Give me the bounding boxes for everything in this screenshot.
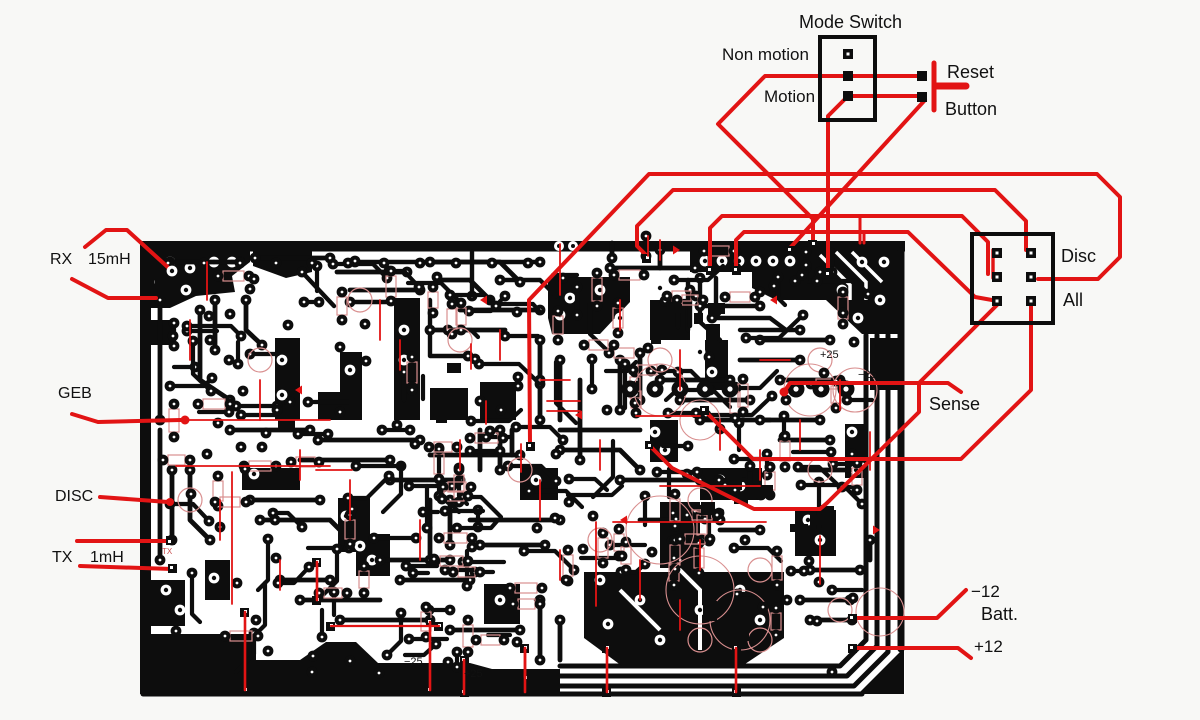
wire (409, 637, 447, 641)
wire (498, 304, 541, 313)
connector pin (1026, 296, 1036, 306)
wire (450, 295, 496, 306)
reset button pins (917, 71, 927, 81)
wire (737, 423, 741, 450)
wire (236, 404, 277, 408)
wire (651, 371, 710, 390)
TX wire upper (77, 539, 169, 543)
wire (793, 450, 831, 454)
resistor (598, 538, 608, 558)
transistor outline (688, 488, 712, 512)
wire (707, 515, 711, 541)
resistor (421, 612, 431, 631)
svg-text:GEB: GEB (58, 385, 92, 402)
wire (465, 551, 469, 586)
resistor (638, 365, 657, 375)
wire (486, 435, 512, 439)
pour 17 (845, 424, 868, 478)
wire (734, 457, 767, 461)
wire (423, 510, 438, 514)
wire (760, 418, 820, 423)
wire (170, 378, 212, 386)
GEB wire (72, 414, 181, 422)
pour 20 (140, 634, 560, 694)
wire (337, 270, 407, 275)
wire (657, 470, 697, 474)
wire (524, 551, 574, 570)
wire (260, 520, 350, 540)
wire (736, 371, 777, 388)
capacitor outline (784, 364, 836, 416)
wire (315, 266, 319, 291)
wire (610, 243, 615, 258)
wire (356, 464, 401, 468)
wire (187, 326, 241, 336)
wire (450, 628, 520, 633)
bottom edge pads (240, 558, 741, 697)
board base (140, 241, 905, 694)
wire (463, 560, 504, 564)
wire (782, 416, 786, 437)
connector pin (992, 248, 1002, 258)
svg-text:Motion: Motion (764, 87, 815, 106)
svg-text:−25: −25 (404, 656, 423, 668)
wire (665, 299, 689, 303)
wire (750, 466, 761, 495)
border trace 2 (560, 335, 877, 676)
wire (819, 482, 833, 543)
wire (760, 338, 830, 343)
resistor (456, 308, 466, 325)
wire (406, 564, 437, 568)
wire (213, 300, 218, 350)
wire (800, 468, 850, 473)
route R3 (710, 216, 988, 274)
transistor outline (588, 528, 612, 552)
pour 1 (151, 251, 250, 308)
route R2 (637, 190, 1026, 256)
wire (676, 517, 705, 521)
wire (304, 300, 319, 304)
resistor (772, 556, 782, 580)
transistor outline (828, 598, 852, 622)
wire (480, 543, 545, 548)
resistor (838, 297, 848, 319)
svg-text:TX: TX (162, 547, 173, 556)
switch pin 2 (843, 71, 853, 81)
wire (663, 444, 688, 448)
large pads row (622, 381, 855, 398)
svg-text:TX: TX (52, 549, 73, 566)
wire (409, 484, 452, 488)
resistor (738, 384, 748, 407)
wire (590, 359, 594, 389)
resistor (563, 555, 573, 576)
resistor (386, 276, 396, 297)
transistor outline (688, 628, 712, 652)
wire (556, 362, 576, 423)
transistor outline (448, 328, 472, 352)
pour 21 (242, 468, 300, 490)
wire (457, 520, 498, 528)
wire (389, 271, 419, 287)
wire (488, 633, 510, 637)
wire (463, 497, 501, 517)
resistor (324, 588, 342, 598)
resistor (780, 441, 790, 461)
resistor (709, 246, 729, 256)
pour 8 (548, 277, 630, 334)
wire (280, 578, 330, 583)
wire (190, 470, 210, 540)
non motion wire (718, 76, 922, 242)
inner red links (595, 522, 597, 606)
wire (700, 418, 770, 423)
wire (413, 571, 428, 575)
capacitor outline (680, 400, 720, 440)
pin link (991, 250, 994, 278)
wire (638, 350, 643, 400)
resistor (831, 386, 841, 403)
reset diagonal wire (790, 100, 925, 248)
resistor (407, 362, 417, 383)
capacitor outline (710, 590, 770, 650)
pour 25 (520, 468, 558, 500)
wire (408, 283, 462, 304)
wire (236, 633, 254, 672)
svg-text:+25: +25 (820, 349, 839, 361)
wire (455, 652, 459, 667)
wire (425, 486, 429, 528)
wire (832, 588, 862, 592)
switch pin 3 (843, 91, 853, 101)
transistor outline (808, 458, 832, 482)
wire (174, 365, 195, 369)
svg-text:15mH: 15mH (88, 251, 131, 268)
border trace 3 (560, 335, 888, 686)
svg-text:All: All (1063, 290, 1083, 310)
svg-text:Mode Switch: Mode Switch (799, 12, 902, 32)
wire (868, 540, 873, 560)
resistor (765, 472, 775, 490)
svg-text:Button: Button (945, 99, 997, 119)
resistor (621, 547, 631, 564)
resistor (448, 482, 466, 492)
wire (568, 486, 622, 495)
wire (380, 558, 450, 563)
pour 5 (826, 272, 903, 334)
wire (193, 341, 211, 391)
resistor (440, 556, 463, 566)
wire (560, 428, 640, 433)
resistor (458, 567, 475, 577)
wire (340, 618, 430, 623)
svg-text:Non motion: Non motion (722, 45, 809, 64)
wire (429, 608, 450, 612)
pour 14 (480, 382, 516, 420)
svg-text:1mH: 1mH (90, 549, 124, 566)
wire (516, 427, 563, 440)
wire (668, 411, 696, 415)
pour 4 (690, 251, 903, 272)
wire (553, 273, 577, 277)
wire (317, 549, 337, 601)
svg-text:Sense: Sense (929, 394, 980, 414)
wire (704, 483, 725, 487)
capacitor outline (634, 364, 686, 416)
wire (620, 478, 700, 483)
transistor outline (178, 488, 202, 512)
pour 10 (394, 298, 420, 420)
wire (789, 265, 806, 298)
wire (256, 583, 265, 634)
route R1 (529, 174, 1120, 443)
resistor (454, 475, 464, 498)
wire (847, 398, 872, 402)
wire (765, 454, 769, 475)
transistor outline (648, 348, 672, 372)
wire (658, 250, 663, 268)
svg-text:−12: −12 (971, 582, 1000, 601)
svg-text:Batt.: Batt. (981, 604, 1018, 624)
wire (560, 450, 640, 470)
svg-text:RX: RX (50, 251, 73, 268)
components silkscreen (158, 246, 904, 658)
wire (538, 600, 543, 660)
wire (374, 536, 416, 540)
RX wire upper (85, 230, 172, 271)
transistor outline (508, 458, 532, 482)
wire (708, 252, 713, 268)
wire (505, 334, 538, 338)
wire (400, 578, 470, 583)
pour 13 (430, 388, 468, 420)
wire (660, 378, 730, 383)
wire (606, 362, 636, 371)
resistor (447, 309, 457, 329)
wire (667, 469, 671, 497)
resistor (169, 409, 179, 432)
mode switch box U1 (820, 37, 875, 120)
wire (255, 256, 330, 261)
wire (830, 250, 835, 272)
board corner chamfer (858, 648, 904, 694)
wire (469, 296, 505, 311)
resistor (682, 295, 698, 305)
connector J1 (972, 234, 1053, 323)
pour 11 (318, 352, 362, 420)
wire (673, 511, 719, 515)
wire (676, 305, 680, 327)
wire (172, 323, 176, 346)
pour 12 (275, 338, 300, 420)
resistor (463, 625, 473, 647)
wire (734, 548, 781, 561)
wire (510, 430, 515, 455)
resistor (428, 292, 438, 308)
resistor (685, 534, 705, 544)
sense wire (780, 388, 789, 397)
wire (278, 567, 309, 583)
wire (448, 330, 478, 337)
pour 26 (700, 468, 762, 500)
resistor (249, 461, 271, 471)
pour 28 (584, 502, 784, 666)
wire (720, 528, 760, 533)
wire (187, 329, 217, 333)
wire (332, 592, 336, 615)
band pads (554, 241, 578, 251)
wire (428, 500, 433, 560)
wire (440, 280, 490, 300)
red arrows (295, 386, 302, 395)
wire (678, 540, 683, 560)
wire (250, 352, 278, 356)
route R4 (736, 232, 992, 300)
wire (798, 467, 838, 485)
resistor (669, 563, 679, 581)
pour 7 (870, 338, 903, 390)
wire (581, 556, 620, 560)
connector pin (1026, 272, 1036, 282)
wire (746, 315, 803, 338)
resistor (697, 515, 707, 535)
resistor (614, 534, 624, 551)
wire (706, 396, 772, 415)
wire (241, 402, 290, 415)
wire (348, 476, 389, 498)
resistor (614, 348, 634, 358)
wire (170, 470, 175, 540)
-12 wire (853, 590, 966, 618)
pour 16 (650, 420, 678, 462)
wire (460, 308, 540, 313)
wire (308, 546, 349, 550)
wire (623, 364, 627, 408)
route All-loop (706, 303, 1031, 459)
wire (273, 513, 302, 527)
wire (230, 428, 310, 433)
resistor (613, 308, 623, 328)
wire (795, 279, 821, 283)
wire (236, 342, 240, 364)
wire (470, 518, 560, 523)
pour 23 (356, 534, 390, 576)
wire (674, 266, 723, 280)
capacitor outline (666, 556, 734, 624)
wire (801, 485, 862, 504)
resistor (518, 599, 535, 609)
wire (558, 620, 563, 660)
wire (817, 281, 868, 294)
wire (333, 264, 387, 278)
wire (445, 509, 483, 513)
wire (383, 463, 401, 512)
scattered vias (163, 256, 860, 679)
wire (719, 478, 746, 482)
connector pin (992, 296, 1002, 306)
wire (250, 498, 320, 503)
route T diagonal (650, 305, 997, 509)
wire (610, 266, 695, 271)
resistor (692, 510, 712, 520)
wire (780, 438, 830, 443)
pour 6 (752, 272, 826, 300)
resistor (592, 278, 602, 301)
wire (170, 504, 209, 521)
wire (610, 543, 645, 547)
wire (448, 500, 453, 545)
wire (170, 260, 240, 265)
wire (804, 252, 809, 268)
wire (298, 432, 328, 436)
wire (318, 438, 420, 443)
svg-text:DISC: DISC (55, 488, 93, 505)
connector pin (1026, 248, 1036, 258)
wire (618, 360, 623, 410)
wire (558, 360, 563, 420)
resistor (481, 635, 500, 645)
wire (476, 510, 480, 527)
transistor outline (348, 288, 372, 312)
pour 22 (338, 498, 370, 552)
resistor (630, 377, 640, 398)
wire (470, 449, 500, 453)
wire (471, 410, 521, 421)
resistor (220, 497, 240, 507)
wire (200, 310, 230, 400)
wire (421, 376, 425, 399)
wire (390, 478, 460, 483)
wire (158, 300, 163, 420)
wire (791, 569, 804, 573)
resistor (223, 271, 244, 281)
wire (387, 613, 401, 655)
wire (192, 573, 200, 622)
pour 15 (705, 340, 728, 390)
connector pin (992, 272, 1002, 282)
resistor (230, 631, 252, 641)
resistor (672, 291, 691, 301)
resistor (730, 392, 740, 413)
transistor outline (248, 348, 272, 372)
wire (590, 303, 611, 354)
texture blobs (155, 275, 834, 641)
resistor (619, 270, 640, 280)
reset button bar (932, 63, 937, 110)
wire (695, 509, 722, 513)
svg-text:−25: −25 (858, 369, 877, 381)
capacitor outline (626, 496, 694, 564)
RX wire lower (72, 279, 156, 298)
pour 24 (484, 584, 520, 624)
resistor (771, 613, 781, 630)
wire (680, 398, 750, 403)
+12 wire (853, 648, 971, 658)
wire (475, 570, 493, 574)
resistor (670, 545, 680, 565)
resistor (515, 583, 537, 593)
pour 18 (140, 580, 185, 626)
capacitor outline (856, 588, 904, 636)
resistor (337, 297, 347, 315)
pour 3 (253, 251, 312, 278)
PCB board outline (140, 241, 905, 694)
wire (621, 564, 645, 572)
pour 19 (205, 560, 230, 600)
TX wire lower (80, 566, 172, 569)
wire (842, 485, 855, 489)
